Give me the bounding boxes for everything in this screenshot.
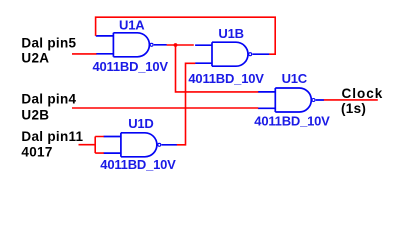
svg-text:U1A: U1A: [119, 18, 145, 33]
wire: Dal pin5 input to U1A lower input: [72, 53, 97, 55]
svg-text:U1D: U1D: [128, 116, 153, 131]
svg-text:4011BD_10V: 4011BD_10V: [254, 114, 330, 129]
svg-text:U2A: U2A: [21, 50, 49, 65]
svg-text:Dal pin11: Dal pin11: [21, 129, 83, 144]
wire: Dal pin4 input to U1C lower input: [72, 107, 258, 109]
svg-text:4011BD_10V: 4011BD_10V: [100, 157, 176, 172]
nand gate U1D: [104, 133, 178, 157]
svg-text:Dal pin5: Dal pin5: [21, 35, 76, 50]
svg-text:4017: 4017: [21, 144, 52, 159]
svg-text:(1s): (1s): [341, 101, 366, 116]
svg-text:U1C: U1C: [282, 71, 308, 86]
wire: Dal pin11 input to U1D tied inputs bracket: [79, 137, 104, 154]
node junction on U1A output: [174, 43, 178, 47]
nand gate U1B: [195, 42, 269, 66]
svg-text:U2B: U2B: [21, 107, 49, 122]
wire: U1C output to Clock label: [324, 99, 378, 101]
wire: junction down and across to U1C upper input: [176, 45, 259, 92]
svg-text:Clock: Clock: [342, 86, 384, 101]
svg-text:4011BD_10V: 4011BD_10V: [93, 59, 169, 74]
wire: U1B output feedback loop to U1A upper input: [96, 17, 276, 54]
wire: U1A output to U1B upper input: [167, 44, 194, 46]
nand gate U1A: [96, 33, 167, 57]
nand gate U1C: [258, 88, 324, 112]
wire: U1D output up to U1B lower input: [177, 63, 196, 145]
svg-text:Dal pin4: Dal pin4: [21, 92, 76, 107]
svg-text:4011BD_10V: 4011BD_10V: [188, 71, 264, 86]
svg-text:U1B: U1B: [218, 26, 243, 41]
